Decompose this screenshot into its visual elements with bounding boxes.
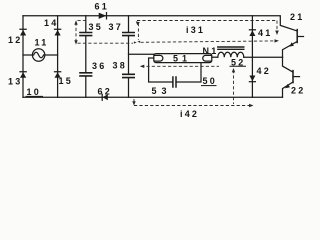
svg-text:15: 15 (59, 76, 73, 86)
svg-text:61: 61 (95, 2, 109, 12)
svg-text:38: 38 (113, 61, 127, 71)
svg-text:i31: i31 (186, 25, 205, 35)
svg-text:51: 51 (173, 54, 191, 64)
svg-text:12: 12 (8, 35, 22, 45)
svg-text:14: 14 (44, 18, 58, 28)
svg-text:10: 10 (27, 87, 41, 97)
svg-text:13: 13 (8, 77, 22, 87)
svg-text:i42: i42 (180, 109, 199, 119)
svg-text:42: 42 (257, 66, 271, 76)
svg-text:21: 21 (290, 12, 304, 22)
svg-text:35: 35 (89, 22, 103, 32)
svg-text:50: 50 (203, 76, 217, 86)
svg-text:37: 37 (109, 22, 123, 32)
svg-text:11: 11 (35, 38, 49, 48)
svg-text:36: 36 (92, 61, 106, 71)
svg-text:53: 53 (152, 86, 172, 96)
svg-text:41: 41 (258, 28, 272, 38)
svg-text:22: 22 (291, 86, 305, 96)
svg-text:N1: N1 (203, 46, 219, 56)
svg-text:62: 62 (98, 87, 112, 97)
